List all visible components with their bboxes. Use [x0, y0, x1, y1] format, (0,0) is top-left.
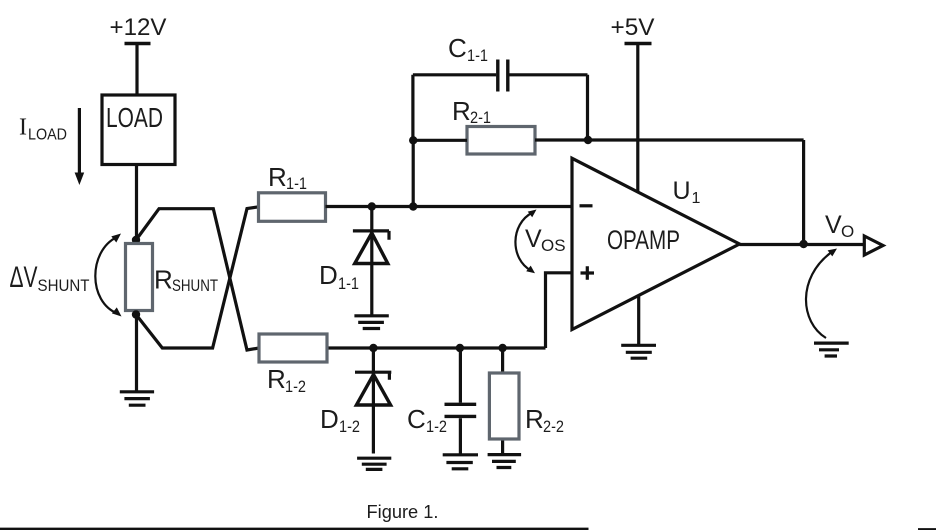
svg-text:+12V: +12V	[110, 14, 167, 41]
LOAD box	[102, 95, 175, 165]
ground (D1-2)	[357, 458, 391, 469]
delta-V_SHUNT curved double arrow	[95, 237, 117, 314]
svg-text:LOAD: LOAD	[106, 102, 163, 133]
node D1-1	[368, 202, 376, 210]
wire R2-1 right to feedback corner	[535, 138, 804, 141]
node feedback left	[409, 136, 417, 144]
wire twisted pair upper (shunt top to R_1-2)	[136, 209, 259, 350]
resistor R2-1	[467, 127, 535, 155]
capacitor C1-2	[459, 348, 462, 454]
wire +12V to LOAD	[135, 45, 138, 95]
svg-text:C: C	[407, 404, 426, 434]
node feedback right	[584, 136, 592, 144]
svg-text:1-1: 1-1	[286, 174, 307, 193]
opamp minus sign	[580, 204, 593, 207]
ground (opamp)	[621, 345, 656, 358]
I_LOAD arrow	[78, 108, 81, 176]
ground (V_O reference)	[814, 343, 849, 356]
bottom border line left	[0, 528, 589, 530]
svg-text:O: O	[841, 222, 854, 241]
svg-text:2-1: 2-1	[470, 108, 491, 127]
diode D1-2	[372, 348, 375, 454]
wire shunt to ground	[135, 315, 138, 392]
svg-text:V: V	[825, 211, 842, 239]
svg-text:OS: OS	[541, 236, 566, 255]
svg-text:SHUNT: SHUNT	[172, 276, 218, 295]
node D1-2	[369, 344, 377, 352]
ground (shunt)	[120, 392, 154, 405]
svg-text:Figure 1.: Figure 1.	[367, 502, 439, 522]
ground (C1-2)	[443, 455, 478, 469]
svg-text:R: R	[525, 404, 544, 434]
node top of shunt	[132, 236, 140, 244]
svg-text:V: V	[525, 225, 542, 253]
svg-text:LOAD: LOAD	[28, 127, 67, 144]
wire bottom rail	[327, 346, 545, 349]
diode D1-1	[370, 207, 373, 316]
wire C1-1 left leg	[411, 75, 414, 141]
bottom border line right	[918, 528, 936, 530]
svg-text:R: R	[452, 96, 471, 126]
resistor R1-1	[259, 193, 326, 222]
V_OS curved double arrow	[515, 213, 532, 271]
wire R2-1 left	[413, 139, 467, 142]
svg-text:D: D	[319, 260, 338, 290]
V_O output arrowhead	[864, 236, 883, 255]
+5V rail bar	[625, 42, 652, 45]
resistor R2-2	[501, 348, 504, 454]
svg-text:OPAMP: OPAMP	[607, 225, 680, 255]
svg-text:U: U	[673, 177, 691, 205]
wire opamp output	[740, 243, 865, 246]
svg-text:I: I	[19, 115, 27, 141]
wire +5V to opamp	[636, 45, 639, 192]
svg-text:ΔV: ΔV	[10, 261, 38, 294]
wire twisted pair lower (shunt bottom to R_1-1)	[136, 207, 259, 348]
svg-text:R: R	[154, 265, 173, 295]
opamp plus sign	[581, 266, 595, 280]
wire plus input	[546, 273, 573, 348]
ground (D1-1)	[354, 316, 388, 329]
svg-text:R: R	[268, 162, 287, 192]
V_O curved arrow	[806, 253, 831, 339]
svg-text:1-1: 1-1	[467, 46, 488, 65]
node C1-2	[456, 344, 464, 352]
resistor R1-2	[259, 334, 327, 362]
wire down to inverting node	[412, 140, 415, 206]
capacitor C1-1 plates	[498, 60, 508, 92]
node inverting input	[409, 202, 417, 210]
svg-text:1-2: 1-2	[426, 417, 447, 436]
svg-text:R: R	[267, 364, 286, 394]
opamp ground stem	[637, 297, 640, 345]
wire C1-1 right leg	[586, 75, 589, 140]
wire R1-1 to opamp inverting input	[326, 205, 573, 208]
capacitor C1-1 wires	[413, 73, 588, 76]
node bottom of shunt	[132, 310, 140, 318]
svg-text:C: C	[448, 33, 467, 63]
svg-text:1-1: 1-1	[338, 274, 359, 293]
resistor R_SHUNT	[126, 244, 153, 311]
svg-text:2-2: 2-2	[543, 417, 564, 436]
ground (R2-2)	[488, 455, 521, 468]
svg-text:SHUNT: SHUNT	[38, 276, 90, 295]
svg-text:1-2: 1-2	[339, 417, 360, 436]
node R2-2	[498, 344, 506, 352]
svg-text:D: D	[320, 404, 339, 434]
wire LOAD to shunt	[135, 165, 138, 241]
svg-text:+5V: +5V	[611, 14, 655, 41]
+12V rail bar	[125, 42, 151, 45]
wire feedback vertical	[802, 140, 805, 244]
op-amp U1 triangle	[572, 158, 740, 329]
node output	[799, 240, 807, 248]
svg-text:1: 1	[692, 190, 701, 207]
svg-text:1-2: 1-2	[285, 377, 306, 396]
